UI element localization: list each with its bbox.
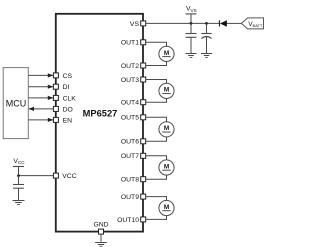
pin OUT7 xyxy=(141,153,146,158)
wire OUT5 to motor M3 xyxy=(146,117,167,121)
capacitor C3 xyxy=(13,176,24,200)
pin OUT9 xyxy=(141,194,146,199)
power tap V_CC xyxy=(13,158,25,176)
wire MCU to CS with arrow xyxy=(29,73,54,77)
svg-text:MP6527: MP6527 xyxy=(83,108,118,118)
IC U1 MP6527 body xyxy=(56,14,143,232)
wire VCC tap to VCC pin xyxy=(19,175,54,177)
pin OUT4 xyxy=(141,100,146,105)
wire MCU to DI with arrow xyxy=(29,85,54,89)
motor M4 xyxy=(159,160,174,175)
pin CLK xyxy=(53,95,58,100)
svg-text:M: M xyxy=(164,50,169,57)
pin CS xyxy=(53,73,58,78)
svg-text:OUT10: OUT10 xyxy=(117,217,139,224)
pin OUT3 xyxy=(141,77,146,82)
ground below C1 xyxy=(186,54,197,58)
wire MCU to EN with arrow xyxy=(29,118,54,122)
power tap V_VS xyxy=(186,6,197,24)
svg-text:OUT7: OUT7 xyxy=(121,153,139,160)
pin OUT8 xyxy=(141,177,146,182)
svg-text:VCC: VCC xyxy=(62,173,76,180)
svg-text:M: M xyxy=(164,204,169,211)
pin VCC xyxy=(53,173,58,178)
svg-text:MCU: MCU xyxy=(6,99,27,109)
pin OUT2 xyxy=(141,63,146,68)
wire OUT9 to motor M5 xyxy=(146,197,167,201)
wire OUT7 to motor M4 xyxy=(146,156,167,160)
motor M5 xyxy=(159,200,174,215)
capacitor C2 polarized xyxy=(201,23,211,53)
pin GND xyxy=(99,229,104,234)
svg-text:CLK: CLK xyxy=(63,95,77,102)
svg-text:CS: CS xyxy=(63,73,73,80)
svg-text:OUT1: OUT1 xyxy=(121,40,139,47)
junction dot VCC node xyxy=(17,174,20,177)
motor M2 xyxy=(159,83,174,98)
svg-text:OUT6: OUT6 xyxy=(121,139,139,146)
motor M1 xyxy=(159,46,174,61)
pin DI xyxy=(53,84,58,89)
pin OUT6 xyxy=(141,139,146,144)
pin OUT5 xyxy=(141,115,146,120)
net flag V_BATT xyxy=(241,18,263,29)
svg-text:OUT9: OUT9 xyxy=(121,194,139,201)
wire motor M1 to OUT2 xyxy=(146,62,167,66)
pin DO xyxy=(53,106,58,111)
svg-text:VS: VS xyxy=(130,21,140,28)
svg-text:EN: EN xyxy=(63,117,73,124)
svg-text:VCC: VCC xyxy=(13,158,25,165)
svg-text:GND: GND xyxy=(93,222,108,229)
svg-text:M: M xyxy=(164,163,169,170)
pin OUT10 xyxy=(141,217,146,222)
svg-text:VVS: VVS xyxy=(186,6,197,13)
ground below C3 xyxy=(13,201,25,205)
wire VS rail xyxy=(146,22,220,24)
motor M3 xyxy=(159,122,174,137)
svg-text:OUT4: OUT4 xyxy=(121,100,139,107)
pin EN xyxy=(53,117,58,122)
junction node C2 xyxy=(205,22,208,25)
wire OUT1 to motor M1 xyxy=(146,42,167,46)
svg-text:DI: DI xyxy=(63,84,70,91)
svg-text:M: M xyxy=(164,125,169,132)
pin OUT1 xyxy=(141,40,146,45)
pin VS xyxy=(141,21,146,26)
svg-text:OUT3: OUT3 xyxy=(121,77,139,84)
wire DO to MCU with arrow xyxy=(29,107,54,111)
wire MCU to CLK with arrow xyxy=(29,96,54,100)
svg-text:M: M xyxy=(164,87,169,94)
wire motor M4 to OUT8 xyxy=(146,175,167,179)
MCU block xyxy=(3,68,28,139)
ground below GND pin xyxy=(95,234,107,246)
svg-text:OUT5: OUT5 xyxy=(121,115,139,122)
capacitor C1 xyxy=(186,23,197,53)
junction node C1 xyxy=(190,22,193,25)
wire motor M5 to OUT10 xyxy=(146,216,167,220)
wire motor M3 to OUT6 xyxy=(146,137,167,141)
diode D1 xyxy=(220,20,242,27)
wire motor M2 to OUT4 xyxy=(146,98,167,102)
svg-text:OUT8: OUT8 xyxy=(121,177,139,184)
ground below C2 xyxy=(201,54,212,58)
svg-text:DO: DO xyxy=(63,106,73,113)
svg-text:OUT2: OUT2 xyxy=(121,63,139,70)
wire OUT3 to motor M2 xyxy=(146,80,167,84)
